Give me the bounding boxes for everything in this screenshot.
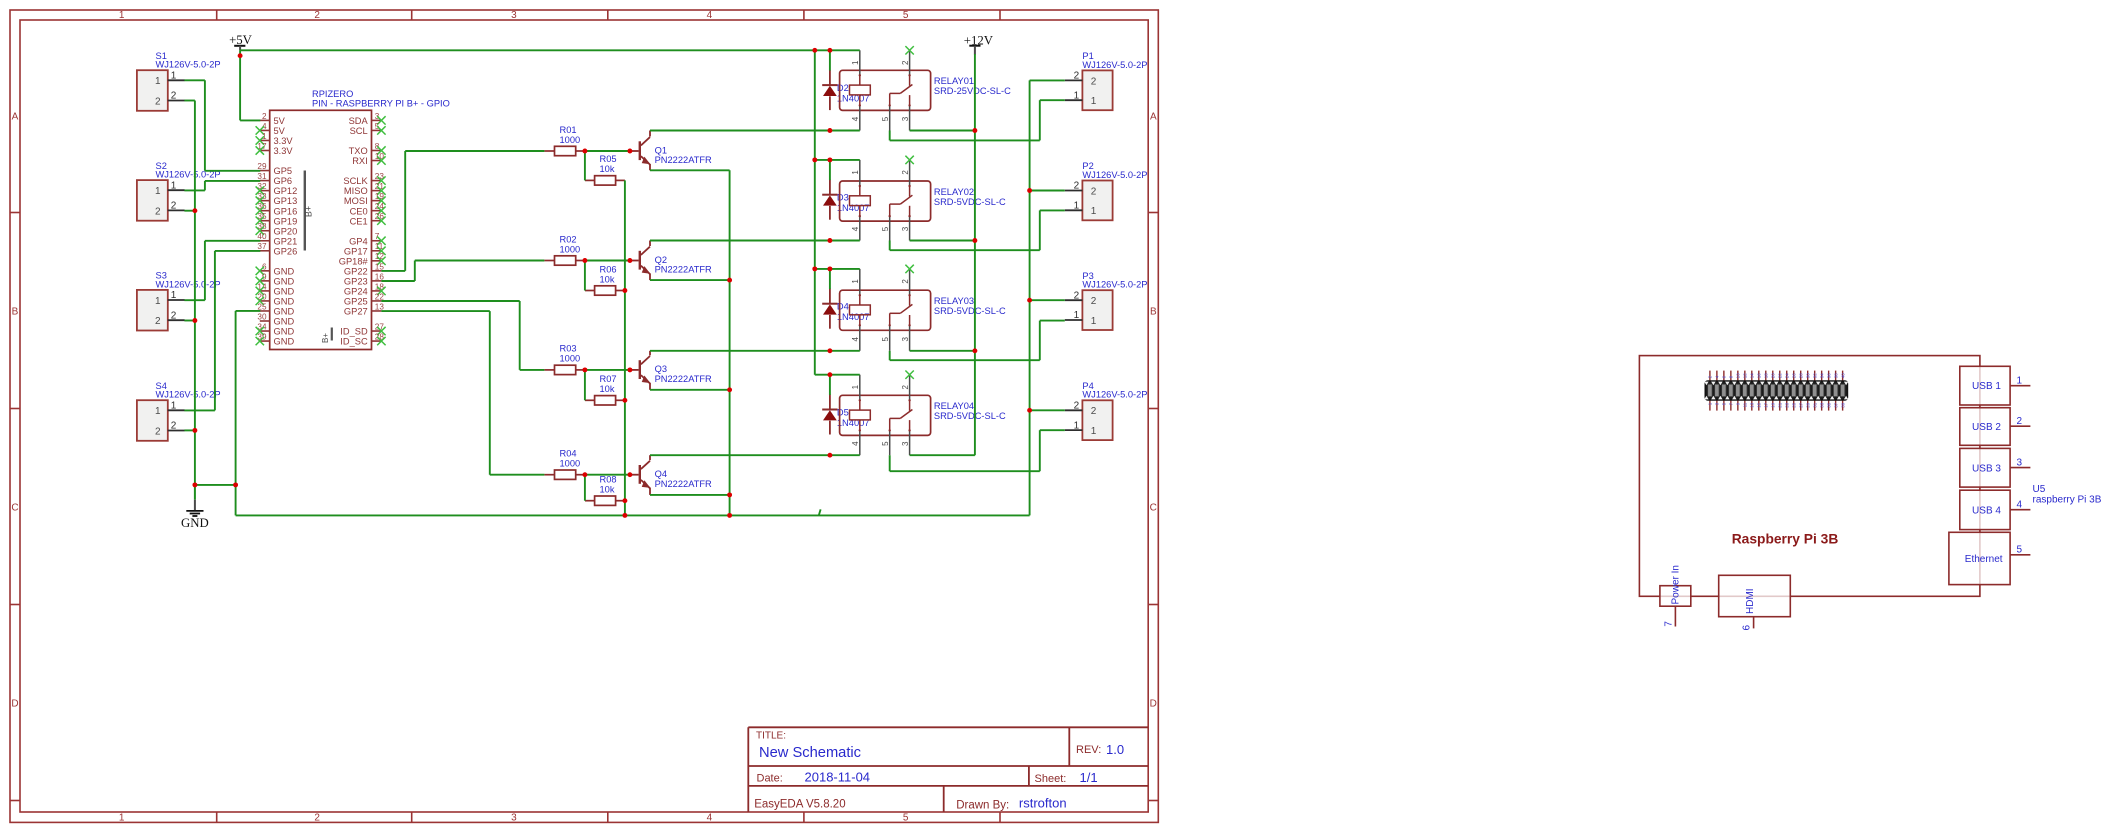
svg-text:1: 1 <box>171 401 177 412</box>
svg-text:17: 17 <box>1764 402 1769 408</box>
svg-text:29: 29 <box>257 162 267 171</box>
svg-text:1: 1 <box>171 290 177 301</box>
wire +12V net <box>910 54 978 455</box>
svg-text:WJ126V-5.0-2P: WJ126V-5.0-2P <box>1082 60 1147 70</box>
IC U5 raspberry Pi 3B board outline <box>1639 356 1980 597</box>
svg-text:29: 29 <box>1805 402 1810 408</box>
svg-text:R01: R01 <box>560 125 577 135</box>
svg-text:D4: D4 <box>837 302 849 312</box>
svg-text:4: 4 <box>707 10 713 21</box>
svg-text:PN2222ATFR: PN2222ATFR <box>655 155 712 165</box>
relay RELAY03 SRD-5VDC-SL-C <box>840 265 1006 351</box>
resistor R03 1000 <box>544 344 585 375</box>
svg-text:16: 16 <box>1757 373 1762 379</box>
svg-text:2: 2 <box>2017 416 2023 427</box>
svg-text:1: 1 <box>1091 206 1097 217</box>
svg-text:4: 4 <box>851 337 860 342</box>
svg-text:23: 23 <box>1785 402 1790 408</box>
svg-text:22: 22 <box>1778 373 1783 379</box>
svg-text:32: 32 <box>1812 373 1817 379</box>
svg-text:Sheet:: Sheet: <box>1035 773 1067 785</box>
svg-text:REV:: REV: <box>1076 744 1101 756</box>
svg-text:WJ126V-5.0-2P: WJ126V-5.0-2P <box>156 60 221 70</box>
svg-text:1: 1 <box>262 132 267 141</box>
svg-text:4: 4 <box>851 116 860 121</box>
wire S2.1 to GP6 <box>184 181 260 191</box>
svg-text:2: 2 <box>171 91 177 102</box>
svg-text:22: 22 <box>375 292 385 301</box>
svg-text:33: 33 <box>1819 402 1824 408</box>
svg-text:2: 2 <box>155 426 161 437</box>
svg-text:EasyEDA V5.8.20: EasyEDA V5.8.20 <box>754 798 845 810</box>
svg-text:21: 21 <box>1778 402 1783 408</box>
svg-text:3: 3 <box>2017 457 2023 468</box>
svg-text:MOSI: MOSI <box>344 196 368 206</box>
svg-text:5: 5 <box>881 116 890 121</box>
resistor R06 10k <box>585 264 625 295</box>
resistor R07 10k <box>585 374 625 405</box>
svg-text:SCLK: SCLK <box>343 176 368 186</box>
svg-text:1: 1 <box>1091 316 1097 327</box>
svg-text:GND: GND <box>274 276 295 286</box>
svg-text:2: 2 <box>1091 186 1097 197</box>
svg-text:WJ126V-5.0-2P: WJ126V-5.0-2P <box>1082 390 1147 400</box>
svg-text:SDA: SDA <box>349 116 369 126</box>
svg-text:4: 4 <box>851 226 860 231</box>
label U5 raspberry Pi 3B <box>2033 484 2102 506</box>
svg-text:4: 4 <box>2017 500 2023 511</box>
svg-text:5: 5 <box>2017 545 2023 556</box>
svg-text:C: C <box>1150 502 1157 513</box>
svg-text:RXI: RXI <box>352 156 368 166</box>
wire emitter rail to GND <box>650 170 732 518</box>
svg-text:3: 3 <box>901 226 910 231</box>
connector Power In on Pi <box>1660 565 1691 627</box>
svg-text:1: 1 <box>171 180 177 191</box>
svg-text:39: 39 <box>1840 402 1845 408</box>
svg-text:1: 1 <box>1091 96 1097 107</box>
resistor R02 1000 <box>544 234 585 265</box>
svg-text:1000: 1000 <box>560 135 581 145</box>
svg-text:Raspberry Pi 3B: Raspberry Pi 3B <box>1732 531 1839 546</box>
connector S4 WJ126V-5.0-2P <box>137 381 221 441</box>
svg-text:2: 2 <box>171 201 177 212</box>
resistor R01 1000 <box>544 125 585 156</box>
svg-text:WJ126V-5.0-2P: WJ126V-5.0-2P <box>156 390 221 400</box>
svg-text:USB 2: USB 2 <box>1972 422 2001 433</box>
svg-text:1: 1 <box>155 76 161 87</box>
svg-text:1: 1 <box>119 813 125 824</box>
svg-text:1N4007: 1N4007 <box>837 203 870 213</box>
svg-text:2: 2 <box>155 206 161 217</box>
connector S1 WJ126V-5.0-2P <box>137 51 221 111</box>
svg-text:1.0: 1.0 <box>1106 742 1124 757</box>
svg-text:SRD-5VDC-SL-C: SRD-5VDC-SL-C <box>934 197 1006 207</box>
svg-text:USB 1: USB 1 <box>1972 381 2001 392</box>
svg-text:13: 13 <box>375 302 385 311</box>
svg-text:1/1: 1/1 <box>1080 770 1098 785</box>
svg-text:1: 1 <box>119 10 125 21</box>
svg-text:2: 2 <box>1074 181 1080 192</box>
svg-text:2: 2 <box>901 170 910 175</box>
svg-text:R06: R06 <box>600 264 617 274</box>
wire relay pin5 to P pin1 <box>890 100 1065 471</box>
svg-text:1: 1 <box>851 384 860 389</box>
svg-text:2018-11-04: 2018-11-04 <box>805 770 871 785</box>
svg-text:28: 28 <box>1799 373 1804 379</box>
connector USB 2 on Pi <box>1960 408 2031 446</box>
svg-text:GP12: GP12 <box>274 186 298 196</box>
svg-text:raspberry Pi 3B: raspberry Pi 3B <box>2033 495 2102 506</box>
svg-text:9: 9 <box>262 272 267 281</box>
wire +5V net <box>238 48 860 395</box>
svg-text:GP17: GP17 <box>344 246 368 256</box>
svg-text:2: 2 <box>1091 76 1097 87</box>
svg-text:USB 4: USB 4 <box>1972 505 2001 516</box>
relay RELAY01 SRD-25VDC-SL-C <box>840 46 1012 130</box>
wire GP22 to R01 <box>381 151 544 271</box>
svg-text:27: 27 <box>1799 402 1804 408</box>
svg-text:GP5: GP5 <box>274 166 293 176</box>
wire base rows R0x to Q bases and 10k pulldowns <box>582 149 632 518</box>
svg-text:35: 35 <box>1826 402 1831 408</box>
svg-text:ID_SD: ID_SD <box>340 327 368 337</box>
svg-text:38: 38 <box>1833 373 1838 379</box>
svg-text:GP24: GP24 <box>344 287 368 297</box>
svg-text:GP23: GP23 <box>344 276 368 286</box>
svg-text:20: 20 <box>1771 373 1776 379</box>
svg-text:2: 2 <box>314 813 320 824</box>
svg-text:5: 5 <box>881 337 890 342</box>
svg-text:B+: B+ <box>321 333 330 343</box>
svg-text:24: 24 <box>1785 373 1790 379</box>
svg-text:10k: 10k <box>600 274 615 284</box>
svg-text:3: 3 <box>901 116 910 121</box>
svg-text:15: 15 <box>1757 402 1762 408</box>
svg-text:R03: R03 <box>560 344 577 354</box>
svg-text:WJ126V-5.0-2P: WJ126V-5.0-2P <box>1082 170 1147 180</box>
wire GP27 to R04 <box>381 311 544 475</box>
svg-text:31: 31 <box>1812 402 1817 408</box>
svg-text:1: 1 <box>851 170 860 175</box>
diode D5 1N4007 <box>822 395 869 435</box>
wire GP23 to R02 <box>381 261 544 282</box>
svg-text:1: 1 <box>155 186 161 197</box>
resistor R08 10k <box>585 475 625 506</box>
svg-text:1: 1 <box>155 406 161 417</box>
svg-text:26: 26 <box>1792 373 1797 379</box>
svg-text:1000: 1000 <box>560 459 581 469</box>
svg-text:1000: 1000 <box>560 244 581 254</box>
svg-text:3.3V: 3.3V <box>274 146 294 156</box>
svg-text:GP19: GP19 <box>274 216 298 226</box>
svg-text:1: 1 <box>851 279 860 284</box>
svg-text:10k: 10k <box>600 164 615 174</box>
svg-text:2: 2 <box>171 421 177 432</box>
svg-text:5: 5 <box>881 226 890 231</box>
svg-text:A: A <box>1150 111 1157 122</box>
svg-text:PN2222ATFR: PN2222ATFR <box>655 265 712 275</box>
svg-text:4: 4 <box>262 122 267 131</box>
svg-text:CE0: CE0 <box>350 206 368 216</box>
svg-text:D: D <box>11 698 18 709</box>
svg-text:36: 36 <box>1826 373 1831 379</box>
svg-text:1: 1 <box>155 296 161 307</box>
svg-text:3: 3 <box>511 813 517 824</box>
svg-text:GND: GND <box>274 327 295 337</box>
svg-text:MISO: MISO <box>344 186 368 196</box>
svg-text:3.3V: 3.3V <box>274 136 294 146</box>
svg-text:5V: 5V <box>274 126 286 136</box>
svg-text:GP21: GP21 <box>274 236 298 246</box>
svg-text:GND: GND <box>274 307 295 317</box>
svg-text:Q4: Q4 <box>655 469 667 479</box>
svg-text:10k: 10k <box>600 485 615 495</box>
svg-text:WJ126V-5.0-2P: WJ126V-5.0-2P <box>156 279 221 289</box>
svg-text:ID_SC: ID_SC <box>340 337 368 347</box>
svg-text:16: 16 <box>375 272 385 281</box>
svg-text:HDMI: HDMI <box>1745 588 1756 614</box>
svg-text:A: A <box>12 111 19 122</box>
transistor Q4 PN2222ATFR <box>630 455 712 495</box>
svg-text:D2: D2 <box>837 83 849 93</box>
svg-text:U5: U5 <box>2033 484 2046 495</box>
wire collector rails to relay pin4 <box>650 128 860 458</box>
svg-text:GP27: GP27 <box>344 307 368 317</box>
svg-text:R05: R05 <box>600 154 617 164</box>
svg-text:USB 3: USB 3 <box>1972 463 2001 474</box>
svg-text:B: B <box>12 306 19 317</box>
svg-text:RELAY01: RELAY01 <box>934 76 974 86</box>
connector Ethernet on Pi <box>1949 532 2031 584</box>
svg-text:1: 1 <box>1074 201 1080 212</box>
svg-text:TITLE:: TITLE: <box>756 730 786 741</box>
svg-text:18: 18 <box>1764 373 1769 379</box>
svg-text:PIN - RASPBERRY PI B+ - GPIO: PIN - RASPBERRY PI B+ - GPIO <box>312 99 450 109</box>
svg-text:SRD-5VDC-SL-C: SRD-5VDC-SL-C <box>934 306 1006 316</box>
svg-text:2: 2 <box>1091 296 1097 307</box>
wire S3.1 to GP21 <box>184 241 260 300</box>
svg-text:1: 1 <box>2017 376 2023 387</box>
svg-text:19: 19 <box>1771 402 1776 408</box>
ground GND symbol <box>181 485 209 530</box>
wire S1.1 to GP5 <box>184 80 260 171</box>
diode D3 1N4007 <box>822 180 869 220</box>
svg-text:D3: D3 <box>837 193 849 203</box>
svg-text:PN2222ATFR: PN2222ATFR <box>655 479 712 489</box>
svg-text:1000: 1000 <box>560 354 581 364</box>
diode D2 1N4007 <box>822 70 869 110</box>
connector USB 3 on Pi <box>1960 448 2031 487</box>
diode D4 1N4007 <box>822 289 869 329</box>
svg-text:B+: B+ <box>304 206 314 217</box>
svg-text:12: 12 <box>1743 373 1748 379</box>
svg-text:5V: 5V <box>274 116 286 126</box>
svg-text:2: 2 <box>901 60 910 65</box>
svg-text:GP18#: GP18# <box>339 256 369 266</box>
svg-text:GP4: GP4 <box>349 236 368 246</box>
svg-text:7: 7 <box>1664 621 1675 627</box>
power +5V <box>229 33 253 51</box>
svg-text:2: 2 <box>1074 71 1080 82</box>
svg-text:2: 2 <box>155 316 161 327</box>
wire GP25 to R03 <box>381 301 544 370</box>
svg-text:25: 25 <box>1792 402 1797 408</box>
svg-text:30: 30 <box>1805 373 1810 379</box>
svg-text:37: 37 <box>1833 402 1838 408</box>
svg-text:Ethernet: Ethernet <box>1965 554 2003 565</box>
svg-text:1: 1 <box>851 60 860 65</box>
svg-text:2: 2 <box>1074 290 1080 301</box>
svg-text:30: 30 <box>257 312 267 321</box>
svg-text:Q3: Q3 <box>655 364 667 374</box>
GPIO header on Pi <box>1704 371 1848 411</box>
connector USB 1 on Pi <box>1960 366 2031 405</box>
svg-text:11: 11 <box>1743 402 1748 407</box>
svg-text:GP26: GP26 <box>274 246 298 256</box>
connector P1 WJ126V-5.0-2P <box>1065 51 1148 110</box>
connector S3 WJ126V-5.0-2P <box>137 271 221 331</box>
svg-text:4: 4 <box>851 441 860 446</box>
svg-text:GP6: GP6 <box>274 176 293 186</box>
svg-text:2: 2 <box>262 112 267 121</box>
svg-text:RELAY04: RELAY04 <box>934 401 974 411</box>
svg-text:RELAY03: RELAY03 <box>934 296 974 306</box>
svg-text:SCL: SCL <box>350 126 368 136</box>
IC RPIZERO (PIN - RASPBERRY PI B+ - GPIO) <box>256 89 450 349</box>
wire GND net (S pin2 rail, bottom rail) <box>184 80 1064 515</box>
title block <box>748 727 1148 812</box>
svg-text:D5: D5 <box>837 408 849 418</box>
svg-text:1: 1 <box>1091 426 1097 437</box>
connector USB 4 on Pi <box>1960 490 2031 529</box>
svg-text:6: 6 <box>262 262 267 271</box>
wire S4.1 to GP26 <box>184 251 260 411</box>
svg-text:4: 4 <box>707 813 713 824</box>
svg-text:1: 1 <box>1074 310 1080 321</box>
svg-text:Q2: Q2 <box>655 255 667 265</box>
svg-text:5: 5 <box>903 813 909 824</box>
svg-text:Q1: Q1 <box>655 145 667 155</box>
svg-text:40: 40 <box>1840 373 1845 379</box>
svg-text:GND: GND <box>274 287 295 297</box>
svg-text:2: 2 <box>901 279 910 284</box>
svg-text:D: D <box>1150 698 1157 709</box>
svg-text:SRD-25VDC-SL-C: SRD-25VDC-SL-C <box>934 86 1011 96</box>
connector S2 WJ126V-5.0-2P <box>137 161 221 221</box>
svg-text:1: 1 <box>1074 90 1080 101</box>
power +12V <box>964 33 994 54</box>
connector HDMI on Pi <box>1719 575 1791 630</box>
connector P3 WJ126V-5.0-2P <box>1065 271 1148 330</box>
svg-text:1N4007: 1N4007 <box>837 312 870 322</box>
resistor R05 10k <box>585 154 625 185</box>
relay RELAY04 SRD-5VDC-SL-C <box>840 371 1006 456</box>
svg-text:1: 1 <box>1074 420 1080 431</box>
svg-text:37: 37 <box>257 242 267 251</box>
transistor Q1 PN2222ATFR <box>630 131 712 171</box>
svg-text:R07: R07 <box>600 374 617 384</box>
svg-text:2: 2 <box>1074 401 1080 412</box>
svg-text:2: 2 <box>901 384 910 389</box>
svg-text:GND: GND <box>274 317 295 327</box>
svg-text:6: 6 <box>1742 625 1753 631</box>
svg-text:R08: R08 <box>600 475 617 485</box>
svg-text:3: 3 <box>511 10 517 21</box>
svg-text:R02: R02 <box>560 234 577 244</box>
svg-text:GP13: GP13 <box>274 196 298 206</box>
svg-text:2: 2 <box>155 96 161 107</box>
svg-text:5: 5 <box>903 10 909 21</box>
relay RELAY02 SRD-5VDC-SL-C <box>840 156 1006 241</box>
svg-text:GND: GND <box>274 297 295 307</box>
svg-text:CE1: CE1 <box>350 216 368 226</box>
svg-text:10: 10 <box>1736 373 1741 379</box>
svg-text:GND: GND <box>274 337 295 347</box>
svg-text:GP22: GP22 <box>344 266 368 276</box>
svg-text:5: 5 <box>881 441 890 446</box>
svg-text:34: 34 <box>1819 373 1824 379</box>
connector P4 WJ126V-5.0-2P <box>1065 381 1148 440</box>
svg-text:3: 3 <box>901 441 910 446</box>
connector P2 WJ126V-5.0-2P <box>1065 161 1148 220</box>
svg-text:B: B <box>1150 306 1157 317</box>
svg-text:SRD-5VDC-SL-C: SRD-5VDC-SL-C <box>934 411 1006 421</box>
transistor Q2 PN2222ATFR <box>630 241 712 281</box>
svg-text:1: 1 <box>171 71 177 82</box>
svg-text:Drawn By:: Drawn By: <box>956 799 1009 811</box>
svg-text:31: 31 <box>257 172 267 181</box>
svg-text:13: 13 <box>1750 402 1755 408</box>
svg-text:Power In: Power In <box>1671 565 1682 604</box>
svg-text:C: C <box>11 502 18 513</box>
svg-text:RELAY02: RELAY02 <box>934 187 974 197</box>
transistor Q3 PN2222ATFR <box>630 351 712 390</box>
svg-text:GP16: GP16 <box>274 206 298 216</box>
resistor R04 1000 <box>544 449 585 480</box>
svg-text:40: 40 <box>257 232 267 241</box>
svg-text:GND: GND <box>181 516 209 530</box>
svg-text:+5V: +5V <box>229 33 253 47</box>
svg-text:R04: R04 <box>560 449 577 459</box>
svg-text:15: 15 <box>375 262 385 271</box>
svg-text:GP20: GP20 <box>274 226 298 236</box>
svg-text:New Schematic: New Schematic <box>759 745 861 761</box>
svg-text:14: 14 <box>1750 373 1755 379</box>
svg-text:2: 2 <box>1091 406 1097 417</box>
svg-text:PN2222ATFR: PN2222ATFR <box>655 374 712 384</box>
svg-text:TXO: TXO <box>349 146 368 156</box>
svg-text:10k: 10k <box>600 384 615 394</box>
svg-text:rstrofton: rstrofton <box>1019 795 1067 810</box>
svg-text:GP25: GP25 <box>344 297 368 307</box>
svg-text:WJ126V-5.0-2P: WJ126V-5.0-2P <box>1082 280 1147 290</box>
svg-text:3: 3 <box>901 337 910 342</box>
svg-text:GND: GND <box>274 266 295 276</box>
svg-text:2: 2 <box>314 10 320 21</box>
svg-text:2: 2 <box>171 310 177 321</box>
svg-text:Date:: Date: <box>757 773 783 785</box>
